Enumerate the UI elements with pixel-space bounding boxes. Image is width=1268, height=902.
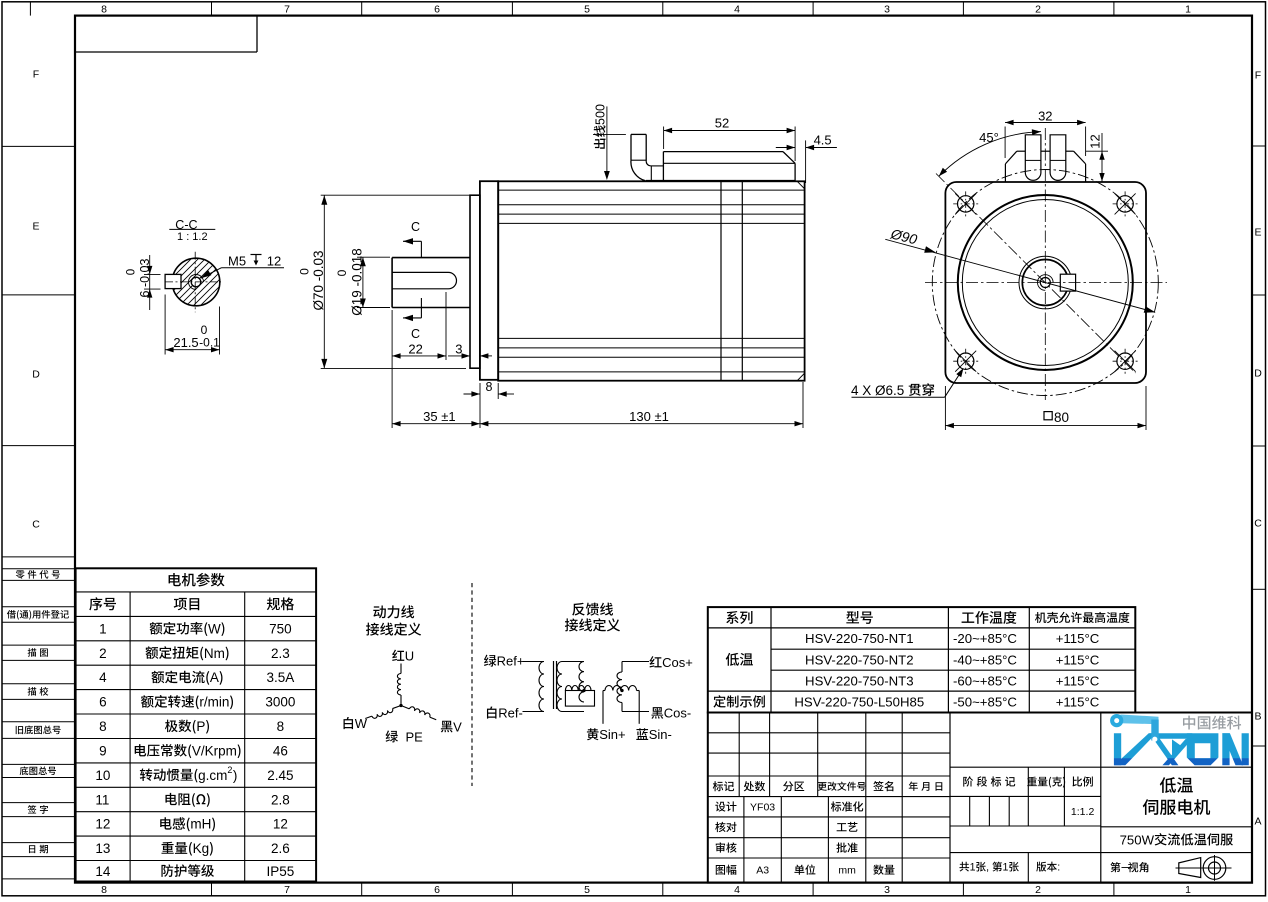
svg-text:0: 0 <box>298 268 312 275</box>
keyway cross-section <box>1060 274 1075 291</box>
zone numbers top <box>101 4 107 16</box>
svg-text::: : <box>1057 862 1060 874</box>
U winding wire <box>400 664 402 674</box>
svg-text:1: 1 <box>1185 884 1191 896</box>
svg-text:HSV-220-750-NT1: HSV-220-750-NT1 <box>805 631 913 646</box>
body circle <box>958 195 1133 370</box>
V winding wire <box>401 703 437 720</box>
svg-text:1: 1 <box>970 862 976 874</box>
svg-text:U: U <box>405 649 414 664</box>
svg-text:Kg: Kg <box>193 841 210 856</box>
label Sin+ <box>587 727 626 742</box>
svg-text:8: 8 <box>101 884 107 896</box>
zone band dividers top <box>29 2 31 16</box>
svg-text:9: 9 <box>99 743 107 758</box>
svg-text:8: 8 <box>277 719 285 734</box>
svg-text:PE: PE <box>398 729 423 744</box>
left margin strip cells <box>2 556 75 558</box>
logo robot arm <box>1121 715 1159 725</box>
svg-text:IP55: IP55 <box>267 864 295 879</box>
svg-text:+115°C: +115°C <box>1056 673 1100 688</box>
param row 2 <box>99 646 107 661</box>
title block <box>708 713 1252 883</box>
svg-text:3000: 3000 <box>265 695 295 710</box>
M5 leader <box>201 270 212 278</box>
connector hood <box>1017 150 1026 152</box>
svg-text:3: 3 <box>455 341 462 356</box>
svg-text:1 : 1.2: 1 : 1.2 <box>177 231 208 243</box>
svg-text:22: 22 <box>408 341 422 356</box>
svg-text:4: 4 <box>734 884 740 896</box>
body section joints <box>720 181 722 380</box>
svg-text:Nm: Nm <box>204 646 225 661</box>
label U phase <box>392 649 414 664</box>
svg-text:HSV-220-750-L50H85: HSV-220-750-L50H85 <box>794 694 924 709</box>
Ref+ wire <box>523 661 545 663</box>
dim 45deg arc <box>939 132 1041 177</box>
svg-text:1: 1 <box>1185 4 1191 16</box>
front flange square <box>945 182 1146 383</box>
svg-text:11: 11 <box>95 792 109 807</box>
svg-text:D: D <box>1254 368 1262 380</box>
svg-text:Ø70 -0.03: Ø70 -0.03 <box>311 250 326 310</box>
svg-text:12: 12 <box>1088 134 1103 148</box>
svg-text:13: 13 <box>95 841 110 856</box>
svg-text:Cos-: Cos- <box>664 706 691 721</box>
corner holes <box>958 196 974 212</box>
svg-text:A: A <box>1255 816 1262 828</box>
svg-text:3: 3 <box>884 4 890 16</box>
shaft circles <box>1019 256 1072 309</box>
star point <box>400 704 403 707</box>
left strip labels <box>16 570 60 580</box>
svg-text:500: 500 <box>593 104 607 125</box>
param row 13 <box>95 841 110 856</box>
PE label <box>386 729 424 744</box>
mounting flange <box>480 181 498 380</box>
dim 12 <box>1101 133 1103 182</box>
svg-text:52: 52 <box>715 116 729 131</box>
svg-text:8: 8 <box>486 380 493 394</box>
svg-text:2: 2 <box>1035 884 1041 896</box>
svg-text:W: W <box>208 621 221 636</box>
svg-text:-40~+85°C: -40~+85°C <box>953 652 1017 667</box>
param row 6 <box>99 695 107 710</box>
section centerlines <box>194 252 196 312</box>
W winding wire <box>365 706 402 722</box>
parameter table header <box>169 573 225 587</box>
model rows <box>805 631 913 646</box>
cos+ wire <box>621 662 623 673</box>
inner circle <box>962 200 1128 366</box>
svg-text:3: 3 <box>884 884 890 896</box>
svg-text:0: 0 <box>201 323 208 337</box>
motor parameter table <box>76 568 317 881</box>
cos winding <box>617 672 622 703</box>
front centerlines <box>1044 128 1046 400</box>
svg-text:): ) <box>233 768 238 783</box>
body surface lines <box>498 189 804 191</box>
param row 8 <box>99 719 107 734</box>
dim 22 <box>391 310 393 428</box>
svg-text:F: F <box>33 69 39 81</box>
svg-text:2.45: 2.45 <box>267 768 293 783</box>
svg-text:YF03: YF03 <box>750 802 775 814</box>
transformer core bars <box>553 661 555 709</box>
svg-text:V: V <box>453 719 462 734</box>
Ref- wire <box>523 711 545 713</box>
svg-text:8: 8 <box>101 4 107 16</box>
svg-text:r/min: r/min <box>199 695 229 710</box>
section C-C title <box>175 218 197 232</box>
dim phi90 <box>885 239 1155 312</box>
shaft keyway slot <box>392 272 456 288</box>
svg-text:2.8: 2.8 <box>271 792 290 807</box>
power wiring diagram title <box>373 605 414 618</box>
svg-text:A3: A3 <box>756 865 769 877</box>
dim square80 <box>944 386 946 430</box>
svg-text:Ø19 -0.018: Ø19 -0.018 <box>349 248 364 316</box>
svg-text:V/Krpm: V/Krpm <box>192 743 237 758</box>
dim 32 <box>1004 127 1006 159</box>
svg-text:2.3: 2.3 <box>271 646 290 661</box>
zone letters right <box>1255 70 1261 82</box>
cable base block <box>651 165 664 167</box>
title text <box>1160 777 1193 793</box>
svg-text:+115°C: +115°C <box>1056 631 1100 646</box>
svg-text:2.6: 2.6 <box>271 841 290 856</box>
svg-text:750W: 750W <box>1120 832 1155 847</box>
dim phi19 <box>362 257 364 307</box>
svg-text:8: 8 <box>99 719 107 734</box>
svg-text:7: 7 <box>284 4 290 16</box>
diagonal centerline <box>936 174 1136 374</box>
primary winding <box>539 662 544 712</box>
dim 35 <box>392 423 480 425</box>
svg-text:4.5: 4.5 <box>814 133 832 148</box>
dim phi70 <box>323 195 325 368</box>
first angle projection symbol <box>1179 858 1201 878</box>
svg-text:4 X Ø6.5: 4 X Ø6.5 <box>851 383 908 398</box>
svg-text:5: 5 <box>584 884 590 896</box>
model table <box>708 607 1136 712</box>
cos- wire <box>621 703 623 712</box>
svg-text:6: 6 <box>99 695 107 710</box>
param row 9 <box>99 743 107 758</box>
svg-text:2: 2 <box>99 646 107 661</box>
junction dot 2 <box>621 689 624 692</box>
zone letters left <box>33 69 39 81</box>
svg-text:D: D <box>32 369 40 381</box>
section plane C bottom <box>411 327 420 341</box>
cable gland stub <box>630 134 632 160</box>
subtitle <box>1120 832 1233 847</box>
label Cos+ <box>650 655 693 670</box>
rotor winding <box>565 686 591 691</box>
svg-text:g.cm: g.cm <box>198 768 227 783</box>
svg-text:Cos+: Cos+ <box>662 655 693 670</box>
svg-text:130 ±1: 130 ±1 <box>629 409 669 424</box>
secondary winding A <box>557 662 562 712</box>
connector pins <box>1025 135 1041 180</box>
label Ref- <box>487 706 523 721</box>
svg-text:750: 750 <box>269 621 292 636</box>
center tapped hole M5 <box>1040 278 1050 288</box>
zone numbers bottom <box>101 884 107 896</box>
svg-text:0: 0 <box>335 269 349 276</box>
svg-text:C: C <box>1254 518 1262 530</box>
svg-text:+115°C: +115°C <box>1056 652 1100 667</box>
svg-text:1: 1 <box>99 621 107 636</box>
svg-text:45°: 45° <box>979 130 999 145</box>
svg-text:10: 10 <box>95 768 110 783</box>
svg-text:2: 2 <box>227 765 232 775</box>
label Ref+ <box>484 654 524 669</box>
top-left attached block <box>256 16 258 52</box>
section plane C top <box>411 220 420 234</box>
svg-text:7: 7 <box>284 884 290 896</box>
rear corner chamfers <box>797 181 804 189</box>
svg-text:6: 6 <box>434 884 440 896</box>
svg-text:F: F <box>1255 70 1261 82</box>
svg-text:12: 12 <box>273 817 288 832</box>
label Cos- <box>651 706 691 721</box>
svg-text:Ref-: Ref- <box>498 706 523 721</box>
svg-text:E: E <box>1255 227 1262 239</box>
svg-text:2: 2 <box>1035 4 1041 16</box>
param row 1 <box>99 621 107 636</box>
svg-text:0: 0 <box>126 269 138 275</box>
param row 11 <box>95 792 109 807</box>
param row 14 <box>95 864 111 879</box>
svg-text:C: C <box>411 220 420 234</box>
sin+ wire <box>603 690 605 692</box>
svg-text:4: 4 <box>734 4 740 16</box>
bolt circle phi90 <box>932 170 1158 396</box>
keyway cutout <box>165 274 181 288</box>
param row 4 <box>99 670 107 685</box>
secondary winding B <box>579 662 584 703</box>
dim 130 <box>802 382 804 428</box>
svg-text:6: 6 <box>434 4 440 16</box>
dim 4.5 <box>805 140 807 183</box>
svg-text:46: 46 <box>273 743 288 758</box>
sin winding <box>605 686 637 691</box>
zone band dividers bottom <box>211 883 213 896</box>
svg-text:4: 4 <box>99 670 107 685</box>
svg-text:35 ±1: 35 ±1 <box>423 409 455 424</box>
svg-text:C: C <box>411 327 420 341</box>
rotor frame rect <box>565 691 594 707</box>
keyway width dim 6 <box>149 255 151 310</box>
center tapped hole <box>191 277 201 287</box>
label Sin- <box>636 727 672 742</box>
dim 52 <box>663 127 665 150</box>
svg-text:12: 12 <box>267 253 281 268</box>
sin- wire <box>637 690 640 692</box>
svg-text:32: 32 <box>1038 108 1052 123</box>
svg-text:6 -0.03: 6 -0.03 <box>138 258 152 297</box>
model table headers <box>726 611 752 624</box>
svg-text:12: 12 <box>95 817 110 832</box>
svg-text:1:1.2: 1:1.2 <box>1071 806 1095 818</box>
svg-text:P: P <box>196 719 205 734</box>
series cells <box>726 653 753 666</box>
svg-text:3.5A: 3.5A <box>267 670 295 685</box>
svg-text:M5: M5 <box>228 253 246 268</box>
svg-text:W: W <box>355 716 368 731</box>
dim 3 <box>448 355 470 357</box>
secondary top wire <box>562 661 584 663</box>
svg-text:Sin-: Sin- <box>649 727 672 742</box>
keyway dim 21.5 <box>164 295 166 355</box>
feedback wiring diagram title <box>572 603 613 616</box>
svg-text:80: 80 <box>1054 410 1069 425</box>
svg-text:14: 14 <box>95 864 111 879</box>
svg-text:+115°C: +115°C <box>1056 694 1100 709</box>
cable cover <box>663 151 783 153</box>
motor body outline <box>498 181 804 380</box>
section circle <box>172 258 220 306</box>
svg-text:Ref+: Ref+ <box>497 654 525 669</box>
junction dot <box>583 689 586 692</box>
svg-text:1: 1 <box>1003 862 1009 874</box>
svg-text:,: , <box>986 862 992 874</box>
secondary bottom wire <box>562 711 584 713</box>
param row 12 <box>95 817 110 832</box>
param row 10 <box>95 768 110 783</box>
svg-text:-60~+85°C: -60~+85°C <box>953 673 1017 688</box>
logo company name <box>1183 716 1241 730</box>
svg-text:E: E <box>33 221 40 233</box>
register boss <box>470 195 480 368</box>
svg-text:mm: mm <box>838 865 856 877</box>
svg-text:Sin+: Sin+ <box>599 727 625 742</box>
svg-text:A: A <box>210 670 219 685</box>
label 4x phi6.5 <box>851 383 934 398</box>
dashed separator line <box>471 583 473 786</box>
svg-text:HSV-220-750-NT2: HSV-220-750-NT2 <box>805 652 913 667</box>
svg-text:21.5: 21.5 <box>173 335 198 350</box>
cable exit label <box>593 104 607 149</box>
svg-text:mH: mH <box>190 817 211 832</box>
title block row labels <box>713 781 734 791</box>
zone letter dividers right <box>1252 145 1266 147</box>
svg-text:-0.1: -0.1 <box>199 336 220 350</box>
svg-text:B: B <box>1255 711 1262 723</box>
zone letter dividers left <box>2 145 75 147</box>
dim 8 <box>479 383 481 428</box>
shaft outline <box>392 257 470 259</box>
svg-text:5: 5 <box>584 4 590 16</box>
cable exit leader <box>606 106 608 176</box>
svg-text:-50~+85°C: -50~+85°C <box>953 694 1017 709</box>
svg-text:C: C <box>32 519 40 531</box>
svg-text:HSV-220-750-NT3: HSV-220-750-NT3 <box>805 673 913 688</box>
svg-text:-20~+85°C: -20~+85°C <box>953 631 1017 646</box>
